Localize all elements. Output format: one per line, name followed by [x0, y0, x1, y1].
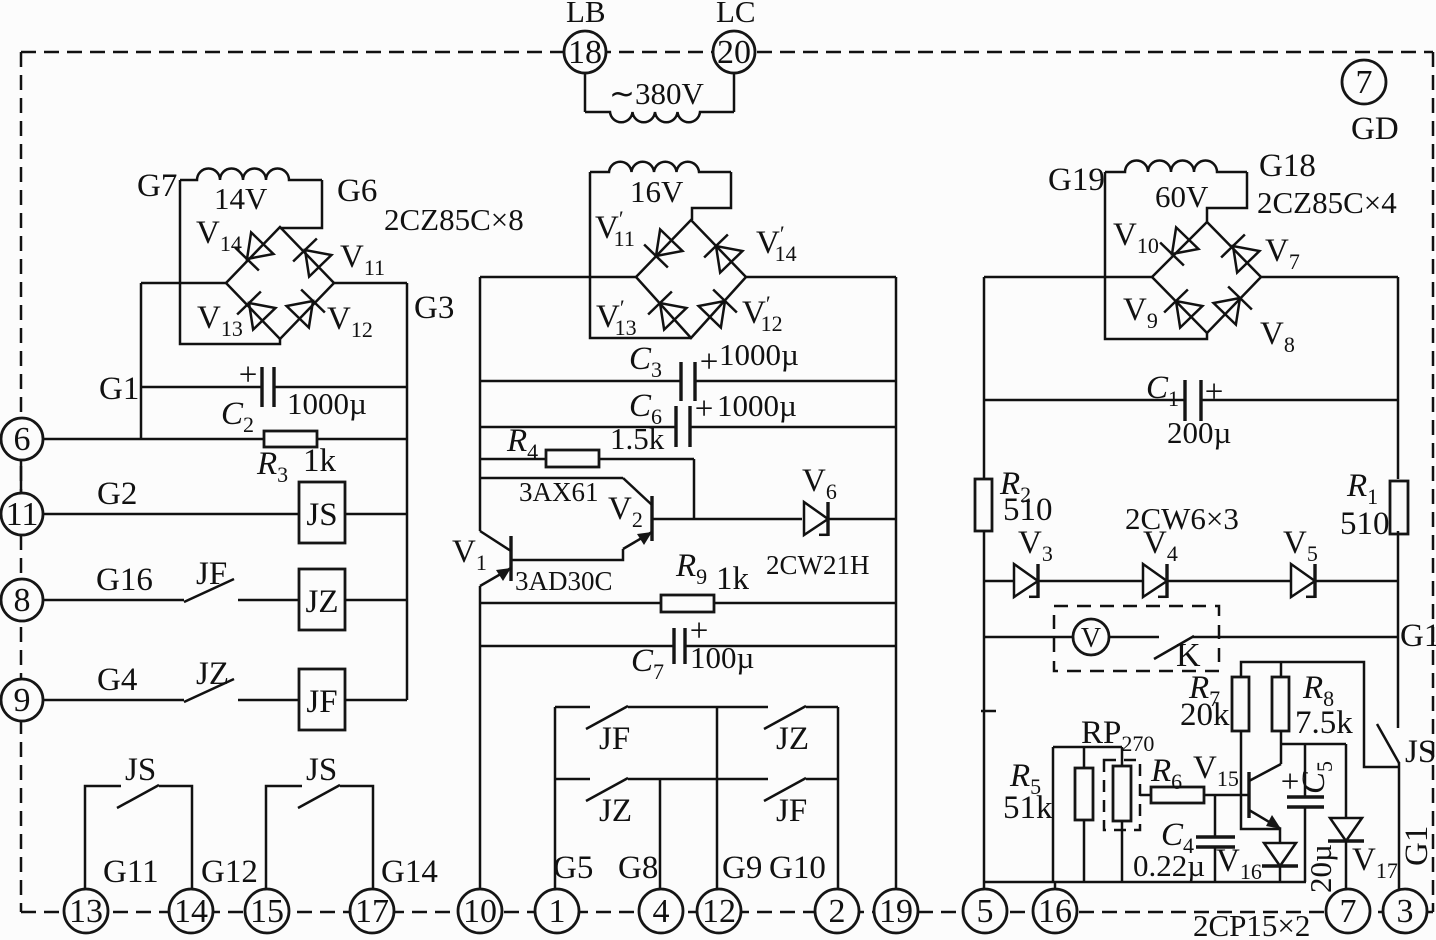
resistor R3 1k — [264, 431, 317, 447]
terminal 20 — [713, 31, 755, 73]
svg-text:G2: G2 — [97, 476, 137, 512]
terminal 14 — [169, 889, 213, 933]
wire top rail right — [1261, 276, 1398, 279]
diode V9 — [1164, 290, 1203, 329]
wire winding right step to bridge top — [692, 172, 731, 220]
svg-text:16V: 16V — [630, 174, 684, 209]
diode V'12 — [698, 290, 737, 329]
wire JZ coil to right edge — [345, 599, 407, 602]
capacitor C2 1000u — [260, 367, 263, 407]
wire V2 emitter to V1 base — [511, 549, 623, 560]
terminal 16 — [1033, 889, 1077, 933]
switch JZ contact — [184, 679, 234, 702]
wire C7 row — [480, 645, 674, 648]
svg-text:V8: V8 — [1260, 316, 1295, 357]
wire winding left to bridge bottom — [590, 172, 691, 338]
terminal 3 — [1383, 889, 1427, 933]
svg-text:1: 1 — [549, 893, 566, 930]
zener V4 — [1143, 564, 1167, 598]
svg-text:19: 19 — [879, 893, 913, 930]
wire G8 column — [659, 779, 662, 890]
voltmeter box dashed — [1054, 606, 1219, 671]
svg-text:V1: V1 — [452, 534, 487, 575]
svg-text:JZ: JZ — [599, 793, 632, 829]
svg-text:LC: LC — [716, 0, 756, 29]
wire top rail right — [746, 276, 896, 279]
wire winding right step to bridge top — [1207, 172, 1247, 222]
svg-text:+: + — [1205, 374, 1224, 410]
wire left bus upper — [983, 277, 986, 479]
sheet number circle 7 GD — [1342, 60, 1386, 104]
wire terminal 16 lead — [1054, 882, 1057, 890]
svg-text:V12: V12 — [327, 301, 373, 342]
svg-text:RP270: RP270 — [1081, 715, 1154, 756]
wire R7 R8 top rail — [1241, 662, 1399, 767]
wire terminal 11 row — [43, 513, 299, 516]
svg-text:G4: G4 — [97, 662, 137, 698]
voltmeter V — [1073, 619, 1109, 655]
wire winding left to bridge bottom — [1105, 172, 1207, 339]
wire top rail left — [984, 276, 1152, 279]
diode V17 — [1345, 744, 1348, 818]
svg-text:G9: G9 — [722, 850, 762, 886]
wire G9 column — [716, 707, 719, 890]
svg-text:G8: G8 — [618, 850, 658, 886]
terminal 10 — [458, 889, 502, 933]
zener V6 2CW21H — [804, 502, 828, 536]
svg-text:C2: C2 — [221, 396, 254, 437]
svg-text:1k: 1k — [303, 443, 337, 479]
svg-text:2CZ85C×4: 2CZ85C×4 — [1257, 185, 1397, 220]
svg-text:R9: R9 — [675, 548, 707, 589]
capacitor C6 1000u — [674, 406, 677, 447]
terminal 2 — [815, 889, 859, 933]
capacitor C4 0.22u — [1214, 795, 1217, 837]
diode V12 — [286, 290, 325, 329]
svg-text:1.5k: 1.5k — [610, 421, 665, 456]
svg-text:200µ: 200µ — [1167, 415, 1231, 450]
svg-text:G6: G6 — [337, 173, 377, 209]
svg-text:G7: G7 — [137, 168, 177, 204]
svg-text:3AD30C: 3AD30C — [515, 566, 613, 596]
svg-text:JS: JS — [306, 752, 337, 788]
svg-text:G14: G14 — [381, 854, 438, 890]
wire C6 row — [480, 426, 676, 429]
svg-text:R3: R3 — [256, 446, 288, 487]
zener V5 — [1291, 564, 1315, 598]
wire dashed border bottom — [21, 911, 1433, 914]
diode V16 — [1279, 829, 1282, 843]
wire left bus lower — [983, 531, 986, 882]
wire C1 row — [984, 399, 1185, 402]
transistor V1 3AD30C — [509, 536, 512, 581]
switch JS contact (right) — [1377, 724, 1399, 763]
wire dashed border top — [21, 51, 1433, 54]
wire left vertical of pot subcircuit — [1052, 747, 1055, 882]
svg-text:7: 7 — [1340, 893, 1357, 930]
svg-text:V′14: V′14 — [756, 221, 797, 266]
svg-text:JS: JS — [306, 497, 337, 533]
svg-text:G10: G10 — [769, 850, 826, 886]
svg-text:JZ: JZ — [196, 656, 229, 692]
capacitor C3 1000u — [679, 362, 682, 401]
wire R8 top lead — [1280, 662, 1283, 677]
svg-text:JF: JF — [776, 793, 807, 829]
wire right bus middle — [1397, 531, 1400, 728]
relay coil JS — [299, 482, 345, 543]
svg-text:V3: V3 — [1018, 525, 1053, 566]
wire G5 column — [554, 707, 557, 890]
wire left bus lower — [479, 586, 482, 890]
diode V11 — [293, 239, 332, 278]
svg-text:R1: R1 — [1346, 468, 1378, 509]
wire switch to JZ coil — [238, 599, 299, 602]
zener V3 — [1014, 564, 1038, 598]
switch JF contact — [184, 579, 234, 602]
svg-text:V11: V11 — [340, 239, 385, 280]
svg-text:2CP15×2: 2CP15×2 — [1193, 908, 1310, 940]
wire R9 row — [480, 602, 896, 605]
svg-text:18: 18 — [568, 34, 602, 71]
svg-text:20µ: 20µ — [1303, 844, 1338, 893]
svg-text:R4: R4 — [506, 423, 538, 464]
resistor R7 20k — [1232, 677, 1249, 731]
terminal 6 — [1, 418, 43, 460]
svg-text:17: 17 — [355, 893, 389, 930]
svg-text:G5: G5 — [553, 850, 593, 886]
resistor R9 1k — [661, 595, 714, 612]
wire stub on bus — [981, 710, 996, 713]
diode V'11 — [644, 229, 683, 268]
transformer secondary winding 16V — [590, 162, 731, 172]
wire right bus — [895, 277, 898, 890]
resistor R1 510 — [1390, 481, 1408, 534]
svg-text:4: 4 — [653, 893, 670, 930]
svg-text:1000µ: 1000µ — [719, 337, 799, 372]
wire right bus upper — [1397, 277, 1400, 479]
svg-text:3AX61: 3AX61 — [519, 477, 599, 507]
svg-text:G1: G1 — [99, 371, 139, 407]
svg-text:7.5k: 7.5k — [1295, 705, 1353, 741]
svg-text:G18: G18 — [1259, 148, 1316, 184]
svg-text:20k: 20k — [1180, 697, 1230, 733]
wire terminal 18 lead down — [584, 73, 587, 112]
wire V15 collector up — [1280, 744, 1283, 764]
wire K to right bus G1 — [1192, 636, 1398, 639]
resistor R8 7.5k — [1272, 677, 1289, 731]
svg-text:K: K — [1176, 637, 1201, 674]
svg-text:7: 7 — [1356, 64, 1373, 101]
switch grid top rail — [555, 706, 590, 709]
transformer T primary winding ~380V — [585, 112, 734, 122]
svg-text:LB: LB — [566, 0, 606, 29]
rectifier bridge diamond (middle) — [636, 220, 746, 338]
svg-text:5: 5 — [977, 893, 994, 930]
resistor R6 — [1151, 787, 1204, 803]
wire C2 row — [141, 386, 262, 389]
wire bridge right vertex to right edge — [334, 282, 407, 285]
resistor R2 510 — [975, 479, 992, 531]
wire winding right step to bridge top — [280, 180, 322, 228]
wire top rail left — [480, 276, 636, 279]
potentiometer RP dashed box — [1104, 760, 1140, 830]
svg-text:G3: G3 — [414, 290, 454, 326]
svg-text:JS: JS — [125, 752, 156, 788]
svg-text:C7: C7 — [631, 643, 664, 684]
switch grid second rail — [555, 778, 590, 781]
svg-text:JF: JF — [599, 721, 630, 757]
potentiometer RP 270 element — [1113, 766, 1131, 821]
wire right edge vertical — [406, 283, 409, 700]
switch JS (bottom left, terminals 13-14) — [85, 786, 121, 890]
transistor V2 3AX61 — [650, 496, 653, 541]
svg-text:1k: 1k — [716, 561, 750, 597]
svg-text:V10: V10 — [1113, 217, 1159, 258]
svg-text:+: + — [239, 357, 258, 393]
svg-text:2CW21H: 2CW21H — [766, 550, 870, 580]
svg-text:V: V — [1081, 623, 1101, 654]
svg-text:C5: C5 — [1296, 761, 1337, 794]
svg-text:12: 12 — [702, 893, 736, 930]
switch JF contact (lower right) — [764, 778, 806, 801]
svg-text:∼380V: ∼380V — [609, 76, 704, 111]
svg-text:V13: V13 — [197, 300, 243, 341]
terminal 1 — [535, 889, 579, 933]
resistor R5 51k — [1075, 768, 1093, 820]
svg-text:60V: 60V — [1155, 179, 1209, 214]
transformer winding G19-G18 60V — [1105, 161, 1247, 173]
capacitor C5 20u — [1304, 744, 1307, 797]
svg-text:V5: V5 — [1283, 525, 1318, 566]
wire wiper to R6 — [1140, 794, 1151, 797]
wire R4 to V2 base — [693, 459, 696, 519]
wire voltmeter row left — [984, 636, 1073, 639]
terminal 15 — [245, 889, 289, 933]
wire zener row — [984, 580, 1014, 583]
terminal 9 — [1, 679, 43, 721]
potentiometer subcircuit top rail — [1053, 746, 1122, 749]
svg-text:510: 510 — [1340, 506, 1390, 542]
svg-text:G1: G1 — [1399, 826, 1435, 866]
wire voltmeter to switch K — [1109, 636, 1159, 639]
terminal 8 — [1, 579, 43, 621]
terminal 4 — [639, 889, 683, 933]
svg-text:GD: GD — [1351, 111, 1399, 147]
diode V7 — [1221, 235, 1260, 274]
svg-text:JF: JF — [196, 556, 227, 592]
wire terminal 5 lead — [983, 882, 986, 890]
svg-text:G11: G11 — [103, 854, 159, 890]
relay coil JZ — [299, 569, 345, 630]
svg-text:0.22µ: 0.22µ — [1133, 848, 1205, 883]
svg-text:+: + — [700, 344, 719, 380]
svg-text:51k: 51k — [1003, 790, 1053, 826]
switch JZ contact (top right) — [764, 706, 806, 729]
switch K contact — [1154, 636, 1194, 659]
wire right bus to terminal 3 — [1398, 762, 1401, 890]
svg-text:2CZ85C×8: 2CZ85C×8 — [384, 202, 524, 237]
svg-text:V16: V16 — [1216, 843, 1262, 884]
terminal 19 — [874, 889, 918, 933]
wire R7 lead down to emitter node — [1241, 731, 1280, 829]
relay coil JF — [299, 669, 345, 730]
svg-text:V′13: V′13 — [596, 295, 637, 340]
svg-text:13: 13 — [69, 893, 103, 930]
wire G10 column — [837, 707, 840, 890]
wire left edge vertical — [140, 283, 143, 439]
diode V'14 — [704, 235, 743, 274]
wire V2 collector row — [480, 477, 623, 480]
wire C3 row — [480, 380, 681, 383]
svg-text:V15: V15 — [1193, 750, 1239, 791]
switch JS (bottom, terminals 15-17) — [266, 786, 302, 890]
svg-text:9: 9 — [14, 682, 31, 719]
wire dashed border right — [1432, 52, 1435, 912]
wire bridge left vertex to left edge — [141, 282, 226, 285]
svg-text:510: 510 — [1003, 492, 1053, 528]
svg-text:C3: C3 — [629, 341, 662, 382]
capacitor C7 100u — [672, 628, 675, 664]
terminal 18 — [564, 31, 606, 73]
diode V13 — [237, 292, 276, 331]
svg-text:V9: V9 — [1123, 292, 1158, 333]
svg-text:14: 14 — [174, 893, 208, 930]
switch JZ contact (lower left) — [586, 778, 628, 801]
svg-text:G12: G12 — [201, 854, 258, 890]
terminal 13 — [64, 889, 108, 933]
terminal 11 — [1, 493, 43, 535]
wire JF coil to right edge — [345, 699, 407, 702]
wire winding left to bridge bottom — [180, 180, 280, 344]
svg-text:R6: R6 — [1150, 753, 1182, 794]
switch JF contact (top left) — [586, 706, 628, 729]
wire V2 base row with V6 — [652, 518, 802, 521]
transformer winding G7-G6 14V — [180, 169, 322, 181]
svg-text:1000µ: 1000µ — [287, 386, 367, 421]
svg-text:V′12: V′12 — [742, 291, 783, 336]
wire R8 lead down to collector node — [1280, 731, 1283, 744]
svg-text:100µ: 100µ — [690, 640, 754, 675]
wire R6 to V15 base — [1204, 794, 1249, 797]
svg-text:G16: G16 — [96, 562, 153, 598]
svg-text:20: 20 — [717, 34, 751, 71]
svg-text:V6: V6 — [802, 463, 837, 504]
capacitor C1 200u — [1183, 380, 1186, 421]
svg-text:G19: G19 — [1048, 162, 1105, 198]
wire terminal 8 row — [43, 599, 184, 602]
wire switch to JF coil — [238, 699, 299, 702]
svg-text:6: 6 — [14, 421, 31, 458]
wire left bus upper — [479, 277, 482, 531]
wire terminal 6 row — [43, 438, 407, 441]
wire collector node rail — [1281, 743, 1346, 746]
svg-text:V7: V7 — [1265, 233, 1300, 274]
svg-text:V17: V17 — [1352, 842, 1398, 883]
wire dashed border left — [20, 52, 23, 912]
svg-text:11: 11 — [6, 496, 39, 533]
diode V14 — [235, 232, 274, 271]
rectifier bridge diamond (right) — [1152, 222, 1261, 333]
terminal 5 — [963, 889, 1007, 933]
svg-text:JS: JS — [1405, 734, 1436, 770]
svg-text:2: 2 — [829, 893, 846, 930]
svg-text:C1: C1 — [1146, 370, 1179, 411]
svg-text:JZ: JZ — [306, 584, 339, 620]
svg-text:1000µ: 1000µ — [717, 388, 797, 423]
svg-text:JZ: JZ — [776, 721, 809, 757]
svg-text:14V: 14V — [214, 181, 268, 216]
wire solid border left segment between node 6 and node 11 — [20, 432, 23, 520]
resistor R4 1.5k — [546, 450, 599, 467]
terminal 12 — [697, 889, 741, 933]
svg-text:15: 15 — [250, 893, 284, 930]
diode V10 — [1160, 227, 1199, 266]
transistor V15 — [1247, 772, 1250, 818]
wire terminal 20 lead down — [733, 73, 736, 112]
svg-text:V14: V14 — [196, 215, 242, 256]
svg-text:8: 8 — [14, 582, 31, 619]
svg-text:3: 3 — [1397, 893, 1414, 930]
svg-text:JF: JF — [306, 684, 337, 720]
wire terminal 9 row — [43, 699, 184, 702]
svg-text:+: + — [695, 391, 714, 427]
svg-text:G1: G1 — [1400, 618, 1436, 654]
terminal 7 — [1326, 889, 1370, 933]
svg-text:V2: V2 — [608, 491, 643, 532]
terminal 17 — [350, 889, 394, 933]
wire R4 row — [480, 458, 546, 461]
rectifier bridge diamond (left) — [226, 227, 334, 339]
svg-text:V′11: V′11 — [595, 206, 635, 251]
svg-text:10: 10 — [463, 893, 497, 930]
svg-text:16: 16 — [1038, 893, 1072, 930]
diode V8 — [1213, 287, 1252, 326]
diode V'13 — [648, 292, 687, 331]
wire bottom rail — [984, 881, 1306, 884]
